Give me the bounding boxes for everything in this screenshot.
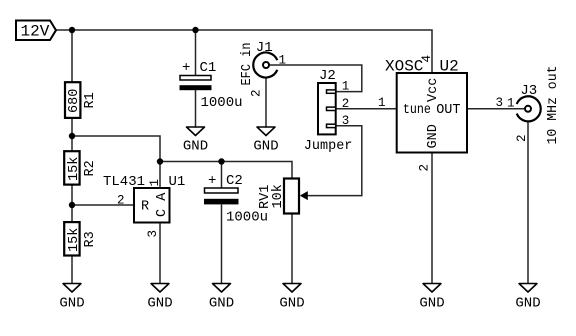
svg-text:R: R (141, 200, 149, 215)
svg-text:1: 1 (507, 96, 515, 110)
svg-text:U2: U2 (440, 58, 459, 76)
ground under J3 (515, 284, 540, 312)
junction at C1 top (192, 27, 198, 33)
svg-text:12V: 12V (21, 23, 50, 41)
junction node R2-R3 (69, 202, 75, 208)
svg-text:C2: C2 (226, 173, 243, 189)
svg-text:2: 2 (250, 89, 264, 97)
svg-text:3: 3 (342, 114, 350, 128)
svg-text:1: 1 (378, 96, 386, 110)
svg-text:TL431: TL431 (103, 174, 145, 190)
wire cathode node to C2 and RV1 (160, 162, 292, 179)
oscillator U2 XOSC (378, 55, 503, 172)
svg-text:2: 2 (418, 164, 432, 172)
junction node R1-R2 (69, 133, 75, 139)
junction TL431 cathode node (157, 158, 163, 164)
svg-text:Jumper: Jumper (304, 139, 353, 154)
svg-text:J3: J3 (520, 83, 537, 99)
svg-text:tune: tune (403, 103, 431, 118)
svg-text:GND: GND (426, 124, 441, 148)
svg-text:GND: GND (183, 139, 208, 155)
wire TL431 anode to GND (159, 223, 161, 284)
svg-text:GND: GND (279, 296, 304, 312)
svg-text:U1: U1 (169, 174, 186, 190)
shunt regulator U1 TL431 (103, 174, 185, 238)
wiper arrow (300, 191, 308, 200)
svg-text:XOSC: XOSC (385, 58, 423, 76)
wire J1 pin1 to J2 pin1 (269, 65, 362, 92)
wire R1 top (71, 30, 73, 83)
svg-text:C A: C A (155, 192, 170, 217)
svg-text:GND: GND (209, 296, 234, 312)
svg-text:2: 2 (515, 134, 529, 142)
svg-text:Vcc: Vcc (426, 78, 441, 102)
pin notch 1 (327, 90, 336, 93)
ground under R3 (59, 284, 84, 312)
wire R2 bottom to R3 (71, 185, 73, 223)
wire RV1 bottom to GND (291, 214, 293, 284)
svg-text:R3: R3 (83, 231, 98, 247)
resistor R3 (64, 222, 98, 255)
svg-text:1: 1 (342, 80, 350, 94)
resistor R2 (64, 151, 98, 184)
wire C2 top (221, 162, 223, 189)
BNC connector J1 (240, 40, 286, 97)
svg-text:2: 2 (117, 194, 125, 208)
svg-text:1: 1 (148, 179, 162, 187)
svg-text:OUT: OUT (436, 103, 460, 118)
wire U2 pin2 to GND (431, 153, 433, 284)
wire R1 bottom to R2 (71, 118, 73, 151)
wire J3 shield to GND (527, 121, 529, 283)
svg-text:1: 1 (279, 54, 287, 68)
svg-text:10k: 10k (271, 184, 286, 208)
svg-text:GND: GND (59, 296, 84, 312)
junction at 12V tap (69, 27, 75, 33)
svg-text:R1: R1 (83, 92, 98, 108)
svg-text:R2: R2 (83, 160, 98, 176)
wire C1 bottom to GND (195, 90, 197, 127)
wire C1 top (195, 30, 197, 76)
potentiometer RV1 (258, 179, 308, 214)
svg-text:1000u: 1000u (226, 210, 268, 226)
wire 12V rail top (56, 30, 432, 73)
wire J1 shield to GND (265, 78, 267, 128)
pin notch 2 (327, 107, 336, 110)
svg-text:10 MHz out: 10 MHz out (546, 66, 561, 145)
ground under U2 (419, 284, 444, 312)
wire C2 bottom to GND (221, 205, 223, 284)
svg-text:GND: GND (515, 296, 540, 312)
capacitor C2 (204, 173, 268, 226)
svg-text:4: 4 (420, 55, 434, 63)
svg-text:15k: 15k (67, 228, 82, 252)
wire R3 bottom to GND (71, 255, 73, 283)
junction C2 top (218, 158, 224, 164)
ground under C1 (183, 127, 208, 155)
power flag 12V (16, 21, 56, 41)
pin notch 3 (327, 124, 336, 127)
wire J2 pin3 to RV1 wiper (307, 126, 362, 196)
svg-text:C1: C1 (200, 60, 217, 76)
wire J2 pin2 to U2 pin1 (336, 108, 397, 110)
svg-text:J1: J1 (256, 40, 273, 56)
svg-text:1000u: 1000u (201, 95, 243, 111)
svg-text:EFC in: EFC in (240, 43, 255, 86)
svg-text:2: 2 (342, 97, 350, 111)
ground under C2 (209, 284, 234, 312)
capacitor C1 (180, 60, 243, 111)
svg-text:+: + (208, 173, 216, 189)
svg-text:3: 3 (146, 230, 160, 238)
wire node R1R2 to TL431 cathode (72, 136, 160, 188)
svg-text:GND: GND (253, 139, 278, 155)
wire U2 pin3 to J3 (467, 108, 525, 110)
ground under RV1 (279, 284, 304, 312)
svg-text:3: 3 (496, 96, 504, 110)
jumper connector J2 (304, 68, 353, 154)
wire node R2R3 to TL431 ref (72, 204, 134, 206)
svg-text:+: + (182, 60, 190, 76)
ground under J1 (253, 127, 278, 155)
svg-text:GND: GND (147, 296, 172, 312)
svg-text:J2: J2 (319, 68, 336, 84)
resistor R1 (65, 82, 98, 118)
svg-text:15k: 15k (67, 157, 82, 181)
svg-text:680: 680 (67, 89, 82, 113)
BNC connector J3 (507, 66, 561, 145)
svg-text:GND: GND (419, 296, 444, 312)
ground under TL431 (147, 284, 172, 312)
